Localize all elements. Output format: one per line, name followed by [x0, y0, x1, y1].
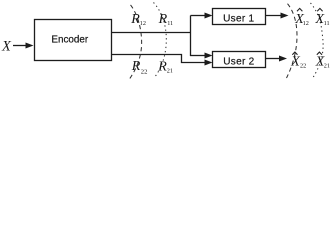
- svg-text:21: 21: [167, 68, 173, 75]
- svg-text:X: X: [1, 39, 12, 55]
- decoding-stage arc (dashed) through R12 and R22: [129, 3, 142, 79]
- svg-text:R: R: [158, 12, 168, 27]
- svg-text:User 2: User 2: [223, 57, 254, 68]
- svg-text:12: 12: [140, 20, 146, 27]
- block: User 1: [213, 9, 266, 25]
- arrowhead: User 2 output: [279, 56, 287, 62]
- svg-text:22: 22: [300, 62, 306, 69]
- svg-text:R: R: [130, 12, 140, 27]
- wire: User 2 output: [266, 58, 281, 60]
- svg-text:Encoder: Encoder: [51, 34, 88, 45]
- svg-text:11: 11: [324, 20, 330, 27]
- svg-text:11: 11: [167, 20, 173, 27]
- arrowhead: into encoder: [26, 43, 34, 49]
- svg-text:User 1: User 1: [223, 14, 254, 25]
- arrowhead: into User 2 lower: [205, 60, 213, 66]
- wire: branch to User 1 input: [191, 15, 207, 17]
- wire: X to encoder input: [13, 45, 27, 47]
- arrowhead: into User 1: [205, 13, 213, 19]
- wire: branch to User 2 upper input: [190, 55, 206, 57]
- svg-text:R: R: [157, 60, 167, 75]
- wire: User 1 output: [266, 15, 283, 17]
- wire: junction vertical at x=190.5: [190, 16, 192, 57]
- arrowhead: into User 2 upper: [205, 53, 213, 59]
- wire: encoder top output: [112, 32, 192, 34]
- svg-text:22: 22: [141, 69, 148, 76]
- decoding-stage arc (dashed) through X12 and X22: [286, 2, 298, 79]
- wire: encoder bottom output to User 2 lower input: [112, 55, 207, 63]
- decoding-stage arc (dotted) through R11 and R21: [154, 3, 167, 78]
- svg-text:21: 21: [324, 62, 330, 69]
- decoding-stage arc (dotted) through X11 and X21: [311, 3, 324, 80]
- svg-text:12: 12: [303, 20, 309, 27]
- block: User 2: [213, 52, 266, 68]
- arrowhead: User 1 output: [281, 13, 289, 19]
- svg-text:X: X: [290, 55, 300, 70]
- svg-text:R: R: [131, 59, 141, 74]
- block: Encoder: [35, 20, 112, 61]
